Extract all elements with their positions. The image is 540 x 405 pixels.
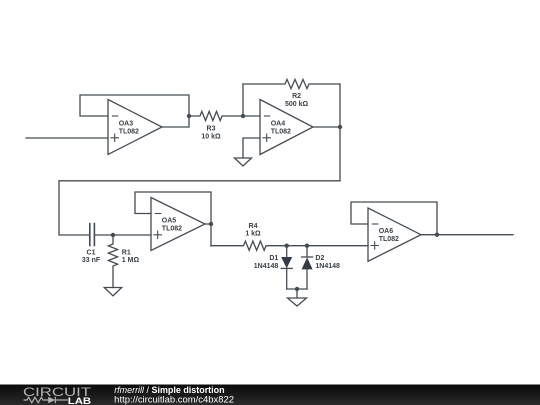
ground below OA4 — [235, 158, 252, 166]
op-amp OA3 — [108, 100, 162, 155]
svg-text:TL082: TL082 — [162, 225, 182, 232]
svg-text:D1: D1 — [269, 255, 278, 262]
node D2 top — [305, 244, 309, 248]
svg-text:R4: R4 — [249, 223, 258, 230]
wire input to OA3 plus — [26, 137, 108, 139]
wire OA5 output — [205, 223, 211, 225]
wire OA3 feedback loop — [80, 95, 189, 127]
resistor R4 — [211, 241, 287, 250]
ground below diodes — [288, 298, 307, 306]
wire diode bus to OA6 plus — [287, 245, 368, 247]
svg-text:D2: D2 — [315, 255, 324, 262]
svg-text:1N4148: 1N4148 — [315, 263, 340, 270]
op-amp OA5 — [151, 198, 205, 251]
svg-text:OA6: OA6 — [379, 228, 394, 235]
op-amp OA6 — [368, 208, 421, 261]
svg-text:R1: R1 — [122, 250, 131, 257]
node C1 R1 junction — [111, 233, 115, 237]
svg-text:R2: R2 — [292, 93, 301, 100]
node OA4 minus junction — [241, 114, 245, 118]
diode D1 — [281, 246, 292, 289]
wire OA6 output — [421, 234, 513, 236]
wire link OA4 to C1 — [59, 181, 340, 235]
wire R2 branch vertical — [242, 84, 244, 116]
node diode bottom junction — [295, 287, 299, 291]
wire OA4 output feedback vertical — [339, 84, 341, 181]
svg-text:LAB: LAB — [68, 396, 92, 405]
wire OA4 output — [313, 126, 340, 128]
node OA5 output — [209, 222, 213, 226]
wire OA6 feedback loop — [351, 202, 437, 235]
svg-text:OA4: OA4 — [271, 121, 286, 128]
wire to ground — [296, 289, 298, 298]
wire OA4 plus stub — [243, 138, 260, 158]
wire diode bottoms join — [287, 288, 307, 290]
node OA6 output — [435, 233, 439, 237]
svg-text:R3: R3 — [207, 125, 216, 132]
svg-text:TL082: TL082 — [271, 128, 291, 135]
logo resistor-diode squiggle — [24, 397, 68, 403]
svg-text:1N4148: 1N4148 — [254, 263, 279, 270]
svg-text:OA3: OA3 — [119, 121, 134, 128]
resistor R2 — [243, 79, 340, 88]
resistor R3 — [189, 111, 243, 120]
svg-text:10 kΩ: 10 kΩ — [201, 133, 221, 140]
svg-text:OA5: OA5 — [162, 218, 177, 225]
svg-text:TL082: TL082 — [379, 236, 399, 243]
node D1 top — [285, 244, 289, 248]
svg-text:1 kΩ: 1 kΩ — [245, 231, 261, 238]
svg-text:rfmerrill / Simple distortion: rfmerrill / Simple distortion — [114, 385, 224, 395]
diode D2 — [302, 246, 313, 289]
wire OA4 minus stub — [243, 115, 260, 117]
wire C1 to OA5 plus — [94, 234, 151, 236]
node OA3 output junction — [187, 114, 191, 118]
wire OA5 feedback loop — [135, 192, 211, 246]
svg-text:500 kΩ: 500 kΩ — [285, 101, 309, 108]
svg-text:TL082: TL082 — [119, 128, 139, 135]
node OA4 output — [338, 125, 342, 129]
op-amp OA4 — [260, 100, 313, 155]
svg-text:1 MΩ: 1 MΩ — [122, 257, 140, 264]
resistor R1 — [108, 235, 117, 288]
capacitor C1 — [90, 224, 95, 246]
svg-text:C1: C1 — [87, 250, 96, 257]
svg-text:http://circuitlab.com/c4bx822: http://circuitlab.com/c4bx822 — [114, 395, 234, 405]
ground below R1 — [104, 288, 121, 296]
svg-text:33 nF: 33 nF — [82, 257, 101, 264]
footer bar — [0, 385, 540, 405]
